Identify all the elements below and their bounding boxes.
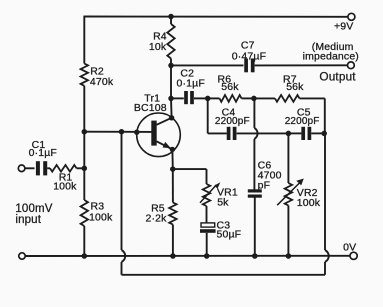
variable resistor VR1 <box>203 184 210 206</box>
wire node A corner to C4 <box>208 132 227 134</box>
svg-text:5k: 5k <box>217 196 229 208</box>
svg-text:Output: Output <box>319 70 356 84</box>
output terminal <box>348 62 355 69</box>
wire VR2 to 0V rail <box>287 206 289 257</box>
svg-text:0·1µF: 0·1µF <box>177 77 205 89</box>
wire R3 bottom to 0V rail <box>83 226 85 256</box>
wire input terminal to C1 <box>25 167 35 169</box>
svg-text:2200pF: 2200pF <box>285 116 320 127</box>
node input junction <box>82 166 88 172</box>
svg-text:0V: 0V <box>343 242 356 254</box>
resistor R6 <box>208 97 220 99</box>
svg-text:56k: 56k <box>286 81 304 93</box>
wire C4 to VR2 node <box>237 132 289 134</box>
transistor Tr1 BC108 <box>134 113 180 157</box>
resistor R1 <box>50 165 77 172</box>
wire emitter junction to R5 <box>172 169 174 202</box>
wire top +9V rail <box>84 16 348 18</box>
capacitor C2 <box>171 97 184 99</box>
node B (R6/R7/C6) <box>251 96 257 102</box>
+9V terminal <box>348 13 355 20</box>
input ground terminal <box>19 253 25 259</box>
variable resistor VR2 <box>285 183 292 206</box>
wire VR1 to C3 <box>206 206 208 223</box>
wire R7 end down to C5 node <box>324 98 326 133</box>
wire R2 bottom to base node <box>83 86 85 132</box>
wire 0V rail <box>25 255 350 257</box>
wire node A down <box>207 98 209 133</box>
capacitor C7 <box>244 59 248 73</box>
wire emitter down <box>171 149 173 169</box>
node feedback tap on base <box>119 129 125 135</box>
node R3 ground <box>82 253 88 259</box>
resistor R4 <box>170 17 172 25</box>
wire C6 to 0V rail <box>254 198 256 257</box>
resistor R5 <box>169 203 176 225</box>
node C5 right <box>321 131 327 137</box>
hop feedback over 0V rail left <box>122 250 126 262</box>
wire node B down to hop <box>253 98 255 128</box>
node emitter junction <box>170 166 176 172</box>
wire feedback right riser upper <box>324 133 326 250</box>
wire feedback lower rail <box>122 274 326 276</box>
capacitor C3 (electrolytic) <box>201 223 215 227</box>
input terminal (signal) <box>18 165 25 172</box>
capacitor C5 <box>288 132 301 134</box>
0V terminal <box>350 252 357 259</box>
wire C3 to 0V rail <box>206 233 208 256</box>
wire output line left <box>171 64 244 66</box>
svg-text:470k: 470k <box>90 76 114 88</box>
wire output tap to collector node <box>170 65 172 98</box>
wire hop to C6 <box>253 139 255 190</box>
svg-text:0·47µF: 0·47µF <box>232 50 266 62</box>
capacitor C1 <box>36 161 40 175</box>
svg-text:BC108: BC108 <box>134 102 167 114</box>
svg-text:2200pF: 2200pF <box>215 116 250 127</box>
node R5 ground <box>170 253 176 259</box>
wire R5 bottom to 0V rail <box>172 225 174 257</box>
svg-text:10k: 10k <box>149 41 167 53</box>
wire feedback hop to lower rail <box>121 262 123 275</box>
wire R4 bottom to output tap <box>170 59 172 66</box>
node base-divider junction <box>82 129 88 135</box>
svg-text:100k: 100k <box>53 181 77 193</box>
wire input node to R3 <box>83 168 85 200</box>
capacitor C6 <box>248 189 262 192</box>
node collector / C2 <box>168 96 174 102</box>
svg-text:100k: 100k <box>297 197 321 209</box>
wire R1 to input node <box>77 167 85 169</box>
wire feedback from base down <box>121 132 123 250</box>
resistor R2 <box>81 64 88 86</box>
node R4 top on rail <box>168 14 174 20</box>
svg-text:56k: 56k <box>221 81 239 93</box>
svg-text:50µF: 50µF <box>217 229 242 241</box>
svg-text:+9V: +9V <box>334 21 353 33</box>
wire left column top (rail to R2) <box>83 16 85 64</box>
node C3 ground <box>204 253 210 259</box>
svg-text:100k: 100k <box>89 211 113 223</box>
wire divider to input node <box>83 132 85 169</box>
resistor R7 <box>254 97 275 99</box>
node A (C2/R6) <box>205 96 211 102</box>
node VR2 top <box>286 131 292 137</box>
svg-text:2·2k: 2·2k <box>145 212 167 224</box>
wire base line <box>84 131 152 133</box>
wire C1 to R1 <box>47 167 50 169</box>
node VR2 ground <box>286 253 292 259</box>
svg-text:0·1µF: 0·1µF <box>29 147 57 159</box>
svg-text:input: input <box>15 214 41 226</box>
node C6 ground <box>252 253 257 259</box>
wire feedback right riser lower <box>324 262 326 275</box>
capacitor C4 <box>227 127 231 140</box>
hop feedback over 0V rail right <box>325 250 329 262</box>
resistor R3 <box>81 200 88 226</box>
svg-text:impedance): impedance) <box>303 51 359 63</box>
node output tap <box>168 63 174 69</box>
wire output line right <box>255 64 348 66</box>
svg-text:pF: pF <box>258 179 271 191</box>
hop C6 over C4C5 row <box>254 128 257 139</box>
wire collector node to transistor <box>170 98 173 117</box>
wire emitter junction to VR1 <box>173 168 207 170</box>
wire VR2 top lead <box>287 133 289 183</box>
